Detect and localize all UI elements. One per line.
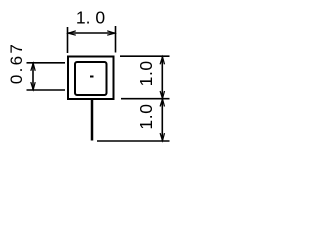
- arrowhead left-up: [31, 63, 35, 71]
- center mark dash: [90, 76, 94, 78]
- arrowhead top-left: [68, 31, 76, 35]
- svg-text:1. 0: 1. 0: [76, 8, 105, 28]
- arrowhead right-bottom-down: [160, 133, 164, 141]
- extension line top-left: [67, 27, 69, 53]
- extension line right-middle: [121, 98, 170, 100]
- extension line left-upper: [27, 62, 66, 64]
- extension line top-right: [115, 26, 117, 53]
- arrowhead top-right: [107, 31, 115, 35]
- outer package body square: [68, 57, 114, 100]
- extension line right-top: [120, 55, 170, 57]
- svg-text:1.0: 1.0: [136, 103, 156, 129]
- svg-text:0.67: 0.67: [7, 42, 26, 84]
- dimension line left (0.67): [32, 63, 34, 89]
- arrowhead right-middle-up: [160, 99, 164, 107]
- extension line left-lower: [27, 89, 66, 91]
- arrowhead right-top-up: [160, 57, 164, 65]
- svg-text:1.0: 1.0: [136, 60, 156, 86]
- dimension line right (vertical): [161, 57, 163, 141]
- arrowhead right-middle-down: [160, 91, 164, 99]
- dimension line top (width 1.0): [68, 32, 114, 34]
- arrowhead left-down: [31, 82, 35, 90]
- lead pin: [91, 100, 94, 141]
- inner pad square: [75, 62, 107, 95]
- extension line right-bottom: [97, 140, 170, 142]
